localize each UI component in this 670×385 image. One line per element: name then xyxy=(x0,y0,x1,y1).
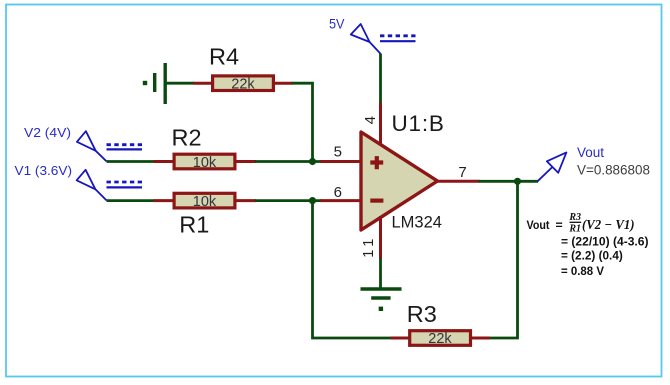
pin 4 of U1 xyxy=(379,103,382,147)
input terminal V1 xyxy=(15,163,143,200)
annotation formula block xyxy=(527,212,649,278)
pin 11 of U1 xyxy=(379,216,382,259)
svg-text:V2 (4V): V2 (4V) xyxy=(24,125,71,140)
resistor R4 xyxy=(194,44,293,93)
svg-text:22k: 22k xyxy=(428,331,452,347)
svg-text:R1: R1 xyxy=(179,212,209,238)
svg-text:22k: 22k xyxy=(231,76,255,92)
svg-text:R4: R4 xyxy=(209,44,239,70)
resistor R1 xyxy=(154,193,257,237)
resistor R2 xyxy=(154,125,257,171)
wire output to node C and to Vout terminal xyxy=(479,180,539,183)
svg-text:10k: 10k xyxy=(193,194,217,210)
svg-text:V=0.886808: V=0.886808 xyxy=(577,163,650,178)
svg-text:5V: 5V xyxy=(329,17,345,32)
pin 7 output of U1 xyxy=(436,180,480,183)
svg-text:R3: R3 xyxy=(568,212,581,223)
input terminal V2 xyxy=(24,125,142,161)
output terminal Vout xyxy=(538,145,651,181)
svg-text:(V2 − V1): (V2 − V1) xyxy=(582,217,635,232)
wire pin 11 to ground xyxy=(379,258,382,289)
wire V1 to R1 xyxy=(107,199,155,202)
svg-text:6: 6 xyxy=(334,184,342,201)
resistor R3 xyxy=(391,301,491,347)
svg-text:11: 11 xyxy=(361,235,377,258)
wire R2 to node A to pin 5 xyxy=(255,160,321,163)
svg-text:LM324: LM324 xyxy=(392,214,442,232)
wire V2 to R2 xyxy=(107,160,155,163)
svg-text:= 0.88 V: = 0.88 V xyxy=(561,264,605,278)
pin 5 of U1 xyxy=(320,160,362,163)
svg-text:=: = xyxy=(556,218,563,232)
wire R4 to node A xyxy=(292,83,313,161)
wire ground to R4 xyxy=(166,82,195,85)
ground (rotated, left of R4) xyxy=(143,63,165,104)
svg-text:Vout: Vout xyxy=(527,218,550,232)
svg-text:V1 (3.6V): V1 (3.6V) xyxy=(15,163,73,178)
ground below op-amp xyxy=(361,289,402,311)
svg-text:U1:B: U1:B xyxy=(392,111,445,136)
node C junction xyxy=(514,178,521,185)
svg-text:R1: R1 xyxy=(568,224,581,235)
pin 6 of U1 xyxy=(320,199,362,202)
svg-text:= (2.2) (0.4): = (2.2) (0.4) xyxy=(561,249,623,263)
power terminal 5V xyxy=(329,17,416,54)
svg-text:R3: R3 xyxy=(407,301,437,327)
svg-text:7: 7 xyxy=(458,164,466,181)
node B junction xyxy=(309,197,316,204)
svg-text:Vout: Vout xyxy=(577,145,604,160)
op-amp U1:B xyxy=(361,111,445,232)
node A junction xyxy=(309,158,316,165)
svg-text:4: 4 xyxy=(362,116,379,124)
wire 5V to pin 4 xyxy=(379,54,382,104)
wire R1 to node B xyxy=(255,199,321,202)
wire node B down through R3 up to node C xyxy=(313,201,392,338)
svg-text:= (22/10) (4-3.6): = (22/10) (4-3.6) xyxy=(561,235,649,249)
svg-text:R2: R2 xyxy=(171,125,201,151)
svg-text:5: 5 xyxy=(334,144,342,161)
svg-text:10k: 10k xyxy=(193,155,217,171)
